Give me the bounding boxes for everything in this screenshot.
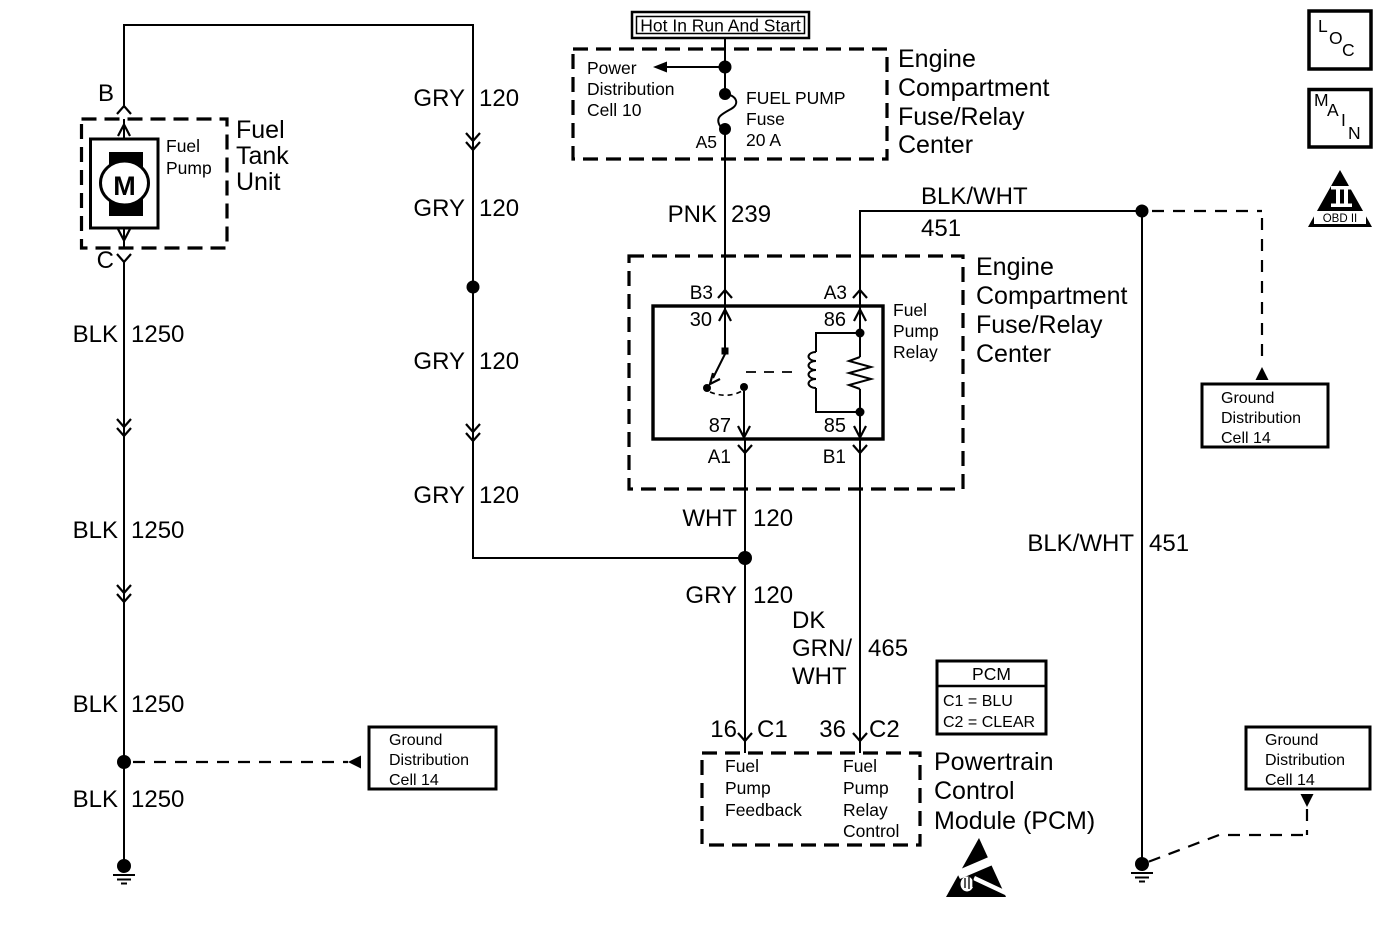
svg-text:O: O — [1329, 28, 1343, 48]
svg-text:B3: B3 — [690, 283, 713, 304]
svg-text:C2 = CLEAR: C2 = CLEAR — [943, 714, 1035, 731]
svg-text:C: C — [1342, 40, 1355, 60]
svg-text:BLK: BLK — [73, 321, 118, 348]
svg-text:Distribution: Distribution — [587, 79, 675, 99]
svg-text:Powertrain: Powertrain — [934, 748, 1054, 776]
svg-text:C1: C1 — [757, 716, 788, 743]
svg-text:Cell 14: Cell 14 — [1221, 430, 1271, 447]
svg-text:Module (PCM): Module (PCM) — [934, 807, 1095, 835]
svg-text:Control: Control — [934, 777, 1015, 805]
svg-text:Ground: Ground — [389, 732, 442, 749]
svg-text:36: 36 — [819, 716, 846, 743]
svg-text:1250: 1250 — [131, 321, 184, 348]
svg-text:B1: B1 — [823, 447, 846, 468]
svg-text:85: 85 — [824, 415, 846, 437]
svg-text:M: M — [113, 171, 136, 201]
svg-text:Fuel: Fuel — [843, 756, 877, 776]
svg-text:120: 120 — [479, 195, 519, 222]
svg-text:Compartment: Compartment — [898, 74, 1049, 102]
svg-text:Fuel: Fuel — [893, 300, 927, 320]
svg-text:Relay: Relay — [843, 800, 888, 820]
svg-text:Fuse/Relay: Fuse/Relay — [976, 311, 1103, 339]
svg-text:Cell 14: Cell 14 — [1265, 772, 1315, 789]
svg-text:120: 120 — [479, 348, 519, 375]
svg-text:Hot In Run And Start: Hot In Run And Start — [640, 16, 801, 36]
svg-text:A3: A3 — [824, 283, 847, 304]
svg-text:1250: 1250 — [131, 786, 184, 813]
svg-text:Center: Center — [976, 340, 1051, 368]
svg-text:A1: A1 — [708, 447, 731, 468]
svg-text:Control: Control — [843, 821, 899, 841]
svg-text:C2: C2 — [869, 716, 900, 743]
svg-text:FUEL PUMP: FUEL PUMP — [746, 88, 846, 108]
svg-text:30: 30 — [690, 309, 712, 331]
svg-text:120: 120 — [479, 482, 519, 509]
svg-text:Pump: Pump — [166, 158, 212, 178]
svg-text:WHT: WHT — [682, 505, 737, 532]
svg-text:Fuel: Fuel — [236, 116, 285, 144]
svg-text:GRY: GRY — [413, 482, 465, 509]
svg-text:WHT: WHT — [792, 663, 847, 690]
svg-text:465: 465 — [868, 635, 908, 662]
svg-text:Distribution: Distribution — [389, 752, 469, 769]
svg-text:451: 451 — [1149, 530, 1189, 557]
svg-text:B: B — [98, 80, 114, 107]
svg-text:Cell 14: Cell 14 — [389, 772, 439, 789]
svg-text:Power: Power — [587, 58, 637, 78]
svg-text:1250: 1250 — [131, 517, 184, 544]
svg-text:Relay: Relay — [893, 342, 938, 362]
svg-text:Center: Center — [898, 131, 973, 159]
svg-text:OBD II: OBD II — [1323, 213, 1358, 225]
svg-text:BLK/WHT: BLK/WHT — [921, 183, 1028, 210]
svg-text:A5: A5 — [696, 132, 717, 152]
svg-text:Fuse/Relay: Fuse/Relay — [898, 103, 1025, 131]
svg-text:1250: 1250 — [131, 691, 184, 718]
svg-text:GRY: GRY — [685, 582, 737, 609]
svg-text:Pump: Pump — [893, 321, 939, 341]
svg-text:BLK/WHT: BLK/WHT — [1027, 530, 1134, 557]
svg-text:GRY: GRY — [413, 195, 465, 222]
svg-text:Fuel: Fuel — [725, 756, 759, 776]
svg-text:Ground: Ground — [1265, 732, 1318, 749]
svg-text:GRN/: GRN/ — [792, 635, 852, 662]
svg-text:Distribution: Distribution — [1221, 410, 1301, 427]
svg-text:Pump: Pump — [725, 778, 771, 798]
svg-text:120: 120 — [753, 505, 793, 532]
svg-text:DK: DK — [792, 607, 825, 634]
svg-text:I: I — [1341, 110, 1346, 130]
svg-text:16: 16 — [710, 716, 737, 743]
svg-text:Fuse: Fuse — [746, 109, 785, 129]
svg-text:Cell 10: Cell 10 — [587, 100, 642, 120]
svg-text:Engine: Engine — [898, 45, 976, 73]
svg-text:Feedback: Feedback — [725, 800, 802, 820]
svg-text:451: 451 — [921, 215, 961, 242]
svg-text:120: 120 — [479, 85, 519, 112]
svg-text:Ground: Ground — [1221, 390, 1274, 407]
svg-text:PCM: PCM — [972, 664, 1011, 684]
svg-text:GRY: GRY — [413, 348, 465, 375]
svg-text:C: C — [97, 247, 114, 274]
svg-text:GRY: GRY — [413, 85, 465, 112]
svg-text:Distribution: Distribution — [1265, 752, 1345, 769]
svg-text:PNK: PNK — [668, 201, 717, 228]
svg-text:Pump: Pump — [843, 778, 889, 798]
svg-text:Unit: Unit — [236, 168, 281, 196]
svg-text:239: 239 — [731, 201, 771, 228]
svg-text:N: N — [1348, 123, 1361, 143]
svg-text:Engine: Engine — [976, 253, 1054, 281]
svg-text:120: 120 — [753, 582, 793, 609]
svg-text:86: 86 — [824, 309, 846, 331]
svg-text:C1 = BLU: C1 = BLU — [943, 693, 1013, 710]
svg-text:L: L — [1318, 16, 1328, 36]
svg-text:87: 87 — [709, 415, 731, 437]
svg-text:BLK: BLK — [73, 786, 118, 813]
svg-text:Fuel: Fuel — [166, 136, 200, 156]
svg-text:20 A: 20 A — [746, 130, 781, 150]
svg-text:Tank: Tank — [236, 142, 289, 170]
svg-text:BLK: BLK — [73, 517, 118, 544]
svg-text:A: A — [1327, 100, 1339, 120]
svg-text:Compartment: Compartment — [976, 282, 1127, 310]
svg-text:BLK: BLK — [73, 691, 118, 718]
